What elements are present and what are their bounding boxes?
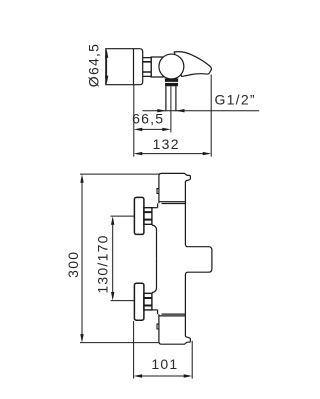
svg-text:Ø64,5: Ø64,5: [85, 43, 101, 87]
svg-text:132: 132: [153, 136, 180, 152]
upper knob button notch: [157, 189, 159, 194]
dimension line 132: [137, 153, 209, 155]
svg-text:G1/2”: G1/2”: [215, 92, 256, 108]
top extension line 300: [80, 173, 160, 175]
upper control knob outline: [159, 173, 191, 203]
lower knob button notch: [157, 324, 159, 329]
body left edge lower half: [152, 259, 157, 293]
dimension line 101: [136, 375, 189, 377]
pipe axis extension line: [170, 86, 172, 132]
left extension line: [133, 85, 135, 157]
bottom extension line 300: [80, 342, 159, 344]
right extension line at handle tip: [210, 75, 212, 157]
svg-text:66,5: 66,5: [132, 111, 164, 127]
upper knob base lines: [159, 202, 186, 204]
lever handle: [174, 52, 211, 77]
body left edge upper half: [152, 225, 157, 259]
side view: plate inner edge: [133, 49, 135, 85]
svg-text:130/170: 130/170: [95, 234, 111, 293]
upper step to union: [157, 204, 159, 208]
side view: wall escutcheon plate: [106, 49, 143, 85]
connector nut: [143, 58, 152, 77]
body right edge with temperature stop lug: [185, 182, 212, 336]
lower step to union: [157, 310, 159, 314]
leader line G1/2: [143, 110, 260, 112]
lower control knob outline: [159, 314, 191, 344]
upper union adapter: [144, 208, 152, 225]
outlet coupling rings: [165, 79, 178, 87]
extension lines 101: [134, 321, 193, 379]
cartridge ball: [159, 54, 184, 79]
connector bush: [151, 57, 163, 77]
dimension line 130/170: [112, 219, 114, 298]
extension lines 130/170: [111, 216, 135, 301]
lower wall escutcheon: [134, 283, 144, 320]
dimension line 66,5: [137, 128, 168, 130]
svg-text:300: 300: [65, 251, 81, 278]
dimension line 300: [81, 177, 83, 340]
upper wall escutcheon: [134, 197, 144, 234]
dimension line Ø64,5: [106, 52, 108, 82]
svg-text:101: 101: [151, 356, 178, 372]
outlet pipe walls: [166, 86, 176, 111]
lower knob base lines: [159, 314, 186, 316]
lower union adapter: [144, 293, 152, 310]
